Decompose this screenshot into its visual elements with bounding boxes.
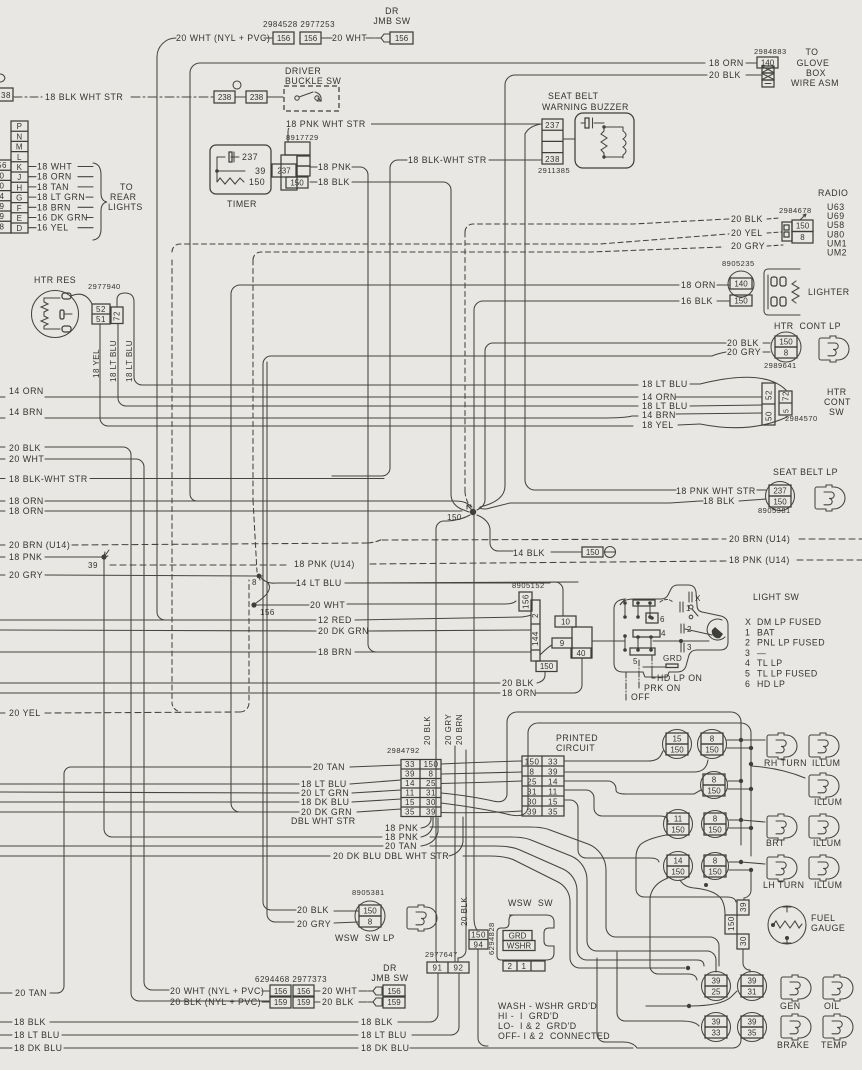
connector 91/92 (427, 962, 469, 973)
svg-text:18 BRN: 18 BRN (37, 202, 71, 212)
svg-text:14: 14 (548, 778, 558, 787)
svg-text:LIGHTER: LIGHTER (808, 287, 850, 297)
wire 18 PNK left row to node 39 (0, 556, 5, 558)
connector 150 rotated box (725, 915, 737, 934)
connector 14/150 circle (664, 852, 693, 881)
svg-text:35: 35 (548, 808, 558, 817)
wire 18 PNK from module (310, 166, 317, 168)
connector DR JMB SW 156 bottom (368, 987, 382, 995)
lamp GEN bulb (781, 975, 811, 1001)
svg-text:150: 150 (670, 745, 684, 754)
connector 8/150 circle 1 (698, 730, 727, 759)
svg-text:10: 10 (561, 617, 570, 626)
svg-text:150: 150 (471, 931, 486, 940)
svg-text:9: 9 (0, 212, 5, 221)
svg-text:30: 30 (739, 936, 748, 946)
node: x157 vertical lower end merges into 12 RED line (157, 585, 165, 620)
wire dashed 20 BLK radio (465, 219, 729, 232)
connector 159 bottom 2 (293, 996, 314, 1008)
connector 150/94 wsw (469, 930, 488, 949)
lamp RH TURN bulb (767, 733, 797, 759)
connector 2/1 box wsw (503, 961, 545, 971)
svg-text:WASH - WSHR GRD'D: WASH - WSHR GRD'D (498, 1001, 597, 1011)
svg-text:25: 25 (712, 987, 721, 996)
svg-text:20 YEL: 20 YEL (731, 228, 763, 238)
svg-text:FUEL: FUEL (811, 913, 836, 923)
connector 9 box (552, 638, 572, 648)
timer pin 39 (217, 157, 245, 171)
svg-text:18 ORN: 18 ORN (681, 280, 716, 290)
wire dashed vertical 20 GRY radio to node 8 (252, 260, 254, 500)
wire node150 to 14 BLK terminator (477, 515, 513, 551)
light switch pin X (689, 592, 692, 602)
svg-text:20 BLK: 20 BLK (9, 443, 41, 453)
svg-text:4: 4 (661, 629, 666, 638)
connector WSHR box wsw (503, 941, 535, 951)
lamp seat belt lp bulb (815, 485, 845, 511)
svg-text:30: 30 (527, 798, 537, 807)
lamp ILLUM bulb 4 (809, 855, 839, 881)
connector 52/51 htr res (92, 304, 110, 324)
svg-text:8: 8 (429, 770, 434, 779)
svg-text:150: 150 (708, 825, 722, 834)
svg-text:M: M (16, 143, 23, 152)
wires block to rear lights labels (28, 166, 36, 168)
wire node39 vertical 18 PNK down to bottom row (104, 559, 130, 837)
svg-text:2977647: 2977647 (425, 950, 458, 959)
connector 39/33 circle (702, 1013, 731, 1042)
svg-text:2984570: 2984570 (785, 414, 818, 423)
svg-text:72: 72 (113, 311, 122, 321)
svg-text:18 DK BLU: 18 DK BLU (361, 1043, 410, 1053)
svg-text:20 GRY: 20 GRY (731, 241, 765, 251)
svg-text:18 TAN: 18 TAN (37, 182, 69, 192)
lamp ILLUM bulb 2 (809, 773, 839, 799)
wire/vertical 20 WHT from top label down left side (157, 38, 176, 585)
component seat belt warning module 8917729 (285, 142, 310, 155)
component HTR RES circle (32, 291, 79, 338)
svg-text:HTR CONT LP: HTR CONT LP (774, 321, 841, 331)
svg-text:25: 25 (426, 779, 436, 788)
light switch pin 1 (680, 602, 683, 612)
wire 20 GRY htr cont lp from vertical x263 (263, 352, 726, 910)
svg-text:14 LT BLU: 14 LT BLU (296, 578, 342, 588)
svg-text:33: 33 (712, 1028, 721, 1037)
svg-text:237: 237 (545, 121, 560, 130)
svg-text:31: 31 (748, 987, 757, 996)
wire 18 ORN lighter from vertical x230 (231, 285, 679, 812)
svg-text:156: 156 (387, 987, 401, 996)
svg-text:11: 11 (405, 789, 414, 798)
connector DR JMB SW 159 bottom (368, 998, 382, 1006)
label 18 PNK WHT STR (285, 119, 371, 128)
node 156 splice (256, 583, 270, 603)
svg-text:8905381: 8905381 (758, 506, 791, 515)
svg-text:150: 150 (249, 177, 265, 187)
svg-text:6: 6 (660, 615, 665, 624)
lamp BRAKE bulb (781, 1014, 811, 1040)
svg-text:18 ORN: 18 ORN (9, 506, 44, 516)
svg-text:52: 52 (96, 305, 106, 314)
wire 18 PNK WHT STR to buzzer 237 and seat belt lp branch (288, 124, 541, 142)
svg-text:UM2: UM2 (827, 248, 847, 258)
svg-text:SEAT BELT: SEAT BELT (548, 91, 599, 101)
svg-text:16 YEL: 16 YEL (37, 223, 69, 233)
wire sweep to 39/33 (617, 952, 699, 1026)
svg-text:56: 56 (0, 161, 7, 170)
svg-text:BOX: BOX (806, 68, 826, 78)
svg-text:4: 4 (0, 192, 5, 201)
svg-text:TEMP: TEMP (821, 1040, 847, 1050)
svg-text:8: 8 (368, 917, 373, 926)
svg-text:237: 237 (277, 166, 291, 175)
wire long border line from corner x190 to glove box 18 ORN (190, 63, 705, 501)
connector 150 lighter (730, 295, 752, 306)
svg-text:18 ORN: 18 ORN (37, 172, 72, 182)
wire 20 TAN row upper (70, 766, 311, 768)
svg-text:20 DK BLU DBL WHT STR: 20 DK BLU DBL WHT STR (333, 851, 449, 861)
svg-text:H: H (16, 183, 22, 192)
connector 156 bottom 1 (270, 985, 291, 997)
svg-text:20 BRN (U14): 20 BRN (U14) (9, 540, 70, 550)
connector 237 module (272, 164, 296, 177)
svg-text:P: P (17, 122, 23, 131)
connector 238 #1 (214, 91, 235, 103)
svg-text:HI - I GRD'D: HI - I GRD'D (498, 1011, 559, 1021)
svg-text:150: 150 (734, 296, 748, 305)
svg-text:20 WHT: 20 WHT (332, 33, 367, 43)
wire 20 BLK row from left into 150 box (0, 682, 500, 684)
wire 20 LT GRN row (0, 792, 299, 793)
svg-text:31: 31 (527, 788, 537, 797)
wire dashed vertical 20 YEL radio left (171, 260, 173, 702)
svg-text:20 BRN (U14): 20 BRN (U14) (729, 534, 790, 544)
svg-text:2: 2 (531, 613, 540, 618)
wire 18 YEL htr sw (100, 324, 633, 426)
svg-text:237: 237 (242, 152, 258, 162)
svg-text:K: K (17, 163, 23, 172)
connector 237/150 seat belt lp (766, 482, 795, 511)
svg-text:RH TURN: RH TURN (764, 758, 807, 768)
svg-text:WARNING BUZZER: WARNING BUZZER (542, 102, 629, 112)
node 8 splice (257, 574, 262, 579)
svg-text:18 LT BLU: 18 LT BLU (109, 340, 118, 382)
svg-text:150: 150 (586, 548, 600, 557)
svg-text:150: 150 (779, 337, 793, 346)
svg-text:20 BLK: 20 BLK (297, 905, 329, 915)
svg-text:5: 5 (784, 409, 791, 413)
wire 14 LT BLU into 8905152 connector 10 (345, 582, 550, 584)
wire light switch to 9/40 outer box (592, 640, 625, 642)
svg-text:18 BLK-WHT STR: 18 BLK-WHT STR (9, 474, 88, 484)
svg-text:HD LP ON: HD LP ON (657, 673, 702, 683)
svg-text:CIRCUIT: CIRCUIT (556, 743, 595, 753)
svg-text:RADIO: RADIO (818, 188, 848, 198)
connector 150 terminator 14 BLK (582, 547, 603, 557)
connector 11/150 circle (664, 810, 693, 839)
svg-text:39: 39 (748, 976, 757, 985)
connector 38 left edge (0, 74, 5, 82)
wire 11/150 circle to 39 box chain (636, 835, 736, 902)
svg-text:TL LP: TL LP (757, 658, 783, 668)
svg-text:2984883: 2984883 (754, 47, 787, 56)
svg-text:SW: SW (829, 407, 844, 417)
svg-text:156: 156 (395, 34, 409, 43)
svg-text:LO- I & 2 GRD'D: LO- I & 2 GRD'D (498, 1021, 577, 1031)
wire 18 LT BLU row (0, 783, 299, 785)
svg-text:LIGHT SW: LIGHT SW (753, 592, 800, 602)
svg-text:39: 39 (712, 1017, 721, 1026)
svg-text:20 GRY: 20 GRY (297, 919, 331, 929)
wire 18 PNK row 2 from node39 sweep right (130, 836, 376, 838)
svg-text:20 WHT: 20 WHT (322, 986, 357, 996)
svg-text:18 LT GRN: 18 LT GRN (37, 192, 85, 202)
connector 8/150 circle 2 (701, 772, 728, 799)
lamp ILLUM bulb 1 (809, 733, 839, 759)
svg-text:8905235: 8905235 (722, 259, 755, 268)
svg-text:144: 144 (531, 631, 540, 646)
svg-text:18 LT BLU: 18 LT BLU (14, 1030, 60, 1040)
bus stubs and junction dots right column (727, 739, 741, 741)
component wsw switch body (497, 915, 554, 960)
component LIGHTER socket (764, 269, 800, 315)
lamp HTR CONT LP bulb (819, 336, 849, 362)
svg-text:20 TAN: 20 TAN (15, 988, 47, 998)
svg-text:BRAKE: BRAKE (777, 1040, 809, 1050)
label PRK ON (638, 682, 640, 686)
svg-text:11: 11 (548, 788, 557, 797)
svg-text:14: 14 (674, 856, 683, 865)
svg-text:20 BLK (NYL + PVC): 20 BLK (NYL + PVC) (170, 997, 261, 1007)
connector 39/31 circle (738, 972, 767, 1001)
connector strip 2/144 8905152 (531, 600, 540, 661)
svg-text:18 LT BLU: 18 LT BLU (125, 340, 134, 382)
svg-text:31: 31 (426, 789, 436, 798)
timer capacitor 237 (217, 156, 239, 158)
svg-text:2: 2 (508, 962, 513, 971)
svg-text:94: 94 (474, 941, 484, 950)
connector 30 rotated box (737, 934, 749, 949)
connector block left edge letters column (11, 121, 28, 233)
svg-text:DRIVER: DRIVER (285, 66, 321, 76)
wire 18 LT BLU #2 htr sw (118, 324, 638, 406)
connector 8/150 circle 4 (702, 853, 729, 880)
svg-text:18 PNK (U14): 18 PNK (U14) (729, 555, 790, 565)
connector 39/35 circle (738, 1013, 767, 1042)
svg-text:20 BLK: 20 BLK (460, 897, 469, 926)
svg-text:2989641: 2989641 (764, 361, 797, 370)
svg-text:150: 150 (707, 786, 721, 795)
svg-text:150: 150 (705, 745, 719, 754)
svg-text:5: 5 (745, 669, 750, 679)
svg-text:51: 51 (96, 315, 106, 324)
connector 39 rotated box (737, 900, 749, 915)
svg-text:14 BLK: 14 BLK (513, 548, 545, 558)
svg-text:20 BLK: 20 BLK (322, 997, 354, 1007)
svg-text:G: G (16, 194, 23, 203)
svg-text:18 PNK WHT STR: 18 PNK WHT STR (286, 119, 366, 129)
svg-text:18 PNK (U14): 18 PNK (U14) (294, 559, 355, 569)
wire 18 DK BLU row (0, 801, 299, 803)
sweep wire 18 PNK2 to bottom (430, 837, 716, 972)
svg-text:BRT: BRT (766, 838, 785, 848)
node 39 splice (101, 554, 106, 559)
svg-text:18 BLK WHT STR: 18 BLK WHT STR (45, 92, 123, 102)
svg-text:150: 150 (540, 662, 554, 671)
svg-text:8: 8 (0, 222, 5, 231)
svg-text:8: 8 (713, 814, 718, 823)
svg-text:18 WHT: 18 WHT (37, 162, 72, 172)
wire from 10 box up-left to 14 LT BLU (550, 582, 563, 616)
wire node150 sweep down-left to 20 BLK vertical x428 (436, 515, 470, 746)
lamp OIL bulb (823, 975, 853, 1001)
svg-text:16 BLK: 16 BLK (681, 296, 713, 306)
connector 140 glove box (757, 57, 778, 68)
connector 156 inline #2 top row (300, 32, 321, 44)
svg-text:1: 1 (745, 627, 750, 637)
connector 50/52 htr cont sw strip (762, 383, 775, 425)
connector 72 htr res (111, 307, 123, 324)
connector glove box 3-cell stack (762, 66, 774, 73)
svg-text:HD LP: HD LP (757, 679, 785, 689)
timer resistor 150 (217, 171, 244, 184)
svg-text:39: 39 (739, 902, 748, 912)
svg-text:LH TURN: LH TURN (763, 880, 804, 890)
connector 10 box (555, 616, 576, 627)
svg-text:GLOVE: GLOVE (797, 58, 830, 68)
svg-text:33: 33 (548, 758, 558, 767)
wire 91 down to 18 BLK row (402, 973, 438, 1022)
wire dashed 20 BRN U14 row (0, 544, 5, 546)
svg-text:39: 39 (527, 808, 537, 817)
switch DRIVER BUCKLE SW dashed box (284, 86, 339, 111)
connector 8/150 circle 3 (702, 811, 729, 838)
svg-text:39: 39 (712, 976, 721, 985)
svg-text:L: L (17, 153, 22, 162)
svg-text:150: 150 (363, 906, 377, 915)
svg-text:2: 2 (745, 638, 750, 648)
svg-text:150: 150 (525, 758, 540, 767)
wire 14 LT BLU row from node 8 (262, 579, 296, 583)
svg-text:8: 8 (530, 768, 535, 777)
svg-text:ILLUM: ILLUM (814, 880, 842, 890)
svg-text:156: 156 (522, 594, 531, 609)
svg-text:156: 156 (277, 34, 291, 43)
wire dashed 20 YEL radio (172, 234, 729, 252)
svg-text:CONT: CONT (824, 397, 851, 407)
svg-text:38: 38 (1, 91, 11, 100)
wire 30 box down to 39/31 circle (743, 949, 750, 972)
svg-text:DBL WHT STR: DBL WHT STR (291, 816, 356, 826)
svg-text:20 GRY: 20 GRY (9, 570, 43, 580)
wire dashed 18 BLK WHT STR to driver buckle sw (14, 96, 42, 98)
svg-text:20 WHT (NYL + PVC): 20 WHT (NYL + PVC) (176, 33, 270, 43)
svg-text:N: N (16, 132, 22, 141)
svg-text:DR: DR (383, 963, 397, 973)
lamp LH TURN bulb (767, 855, 797, 881)
lamp BRT bulb (767, 814, 797, 840)
svg-text:LIGHTS: LIGHTS (108, 202, 143, 212)
connector 156 rotated box 8905152 (519, 592, 532, 611)
svg-text:TIMER: TIMER (227, 199, 257, 209)
outer box around 9/40 (572, 627, 592, 658)
svg-text:20 WHT: 20 WHT (9, 454, 44, 464)
svg-text:3: 3 (745, 648, 750, 658)
svg-text:9: 9 (560, 639, 565, 648)
svg-text:18 ORN: 18 ORN (9, 496, 44, 506)
wire row 18 LT BLU bottom (0, 1034, 12, 1036)
svg-text:150: 150 (708, 867, 722, 876)
sweep wire 20 TAN2 to bottom (430, 846, 704, 966)
svg-text:15: 15 (673, 734, 682, 743)
svg-text:39: 39 (548, 768, 558, 777)
svg-text:39: 39 (426, 808, 436, 817)
svg-text:18 DK BLU: 18 DK BLU (301, 797, 350, 807)
svg-text:20 WHT (NYL + PVC): 20 WHT (NYL + PVC) (170, 986, 264, 996)
connector 159 bottom 1 (270, 996, 291, 1008)
wire 20 BLK htr cont lp from node150 via x485 (477, 343, 726, 510)
wire 18 BRN row (0, 651, 316, 653)
wire curve strip to 9 box (540, 645, 552, 655)
svg-text:OFF- I & 2 CONNECTED: OFF- I & 2 CONNECTED (498, 1031, 610, 1041)
svg-text:WSHR: WSHR (507, 941, 532, 950)
svg-text:238: 238 (218, 93, 232, 102)
svg-text:156: 156 (304, 34, 318, 43)
lamp TEMP bulb (823, 1014, 853, 1040)
connector 150 box 8905152 (536, 661, 557, 672)
svg-text:5: 5 (633, 657, 638, 666)
connector table printed circuit (522, 756, 564, 816)
htr res internals (41, 298, 48, 329)
wire PC bus A outer loop (441, 712, 741, 845)
svg-text:18 LT BLU: 18 LT BLU (642, 379, 688, 389)
wire 16 BLK lighter down to node 150 via x473 (474, 301, 679, 930)
wires PC table right side to circles (564, 751, 663, 761)
svg-text:39: 39 (748, 1017, 757, 1026)
buzzer internals (563, 138, 575, 140)
svg-text:150: 150 (671, 825, 685, 834)
svg-text:TO: TO (120, 182, 133, 192)
connector 140 lighter with ring (728, 271, 754, 297)
svg-text:18 PNK WHT STR: 18 PNK WHT STR (676, 486, 756, 496)
wire 14/150 down to bottom row (650, 878, 697, 980)
svg-text:2984528 2977253: 2984528 2977253 (263, 20, 335, 29)
svg-text:14: 14 (405, 779, 415, 788)
svg-text:6: 6 (745, 679, 750, 689)
svg-text:E: E (17, 214, 23, 223)
svg-text:18 PNK: 18 PNK (9, 552, 42, 562)
svg-text:TL LP FUSED: TL LP FUSED (757, 669, 818, 679)
svg-text:HTR: HTR (827, 387, 847, 397)
lamp WSW SW LP bulb (407, 905, 437, 931)
wire 20 WHT row from node 156 to 8905152 (257, 604, 309, 606)
label HD LP ON (652, 672, 655, 678)
lamp ILLUM bulb 3 (809, 814, 839, 840)
wire 18 ORN left row 1 merged with border vertical (0, 500, 5, 502)
svg-text:159: 159 (387, 998, 401, 1007)
svg-text:140: 140 (734, 279, 748, 288)
svg-text:1: 1 (522, 962, 527, 971)
svg-text:8: 8 (710, 734, 715, 743)
svg-text:238: 238 (545, 155, 560, 164)
svg-text:16 DK GRN: 16 DK GRN (37, 213, 88, 223)
svg-text:8: 8 (713, 856, 718, 865)
wire 20 WHT left row down to bottom NYL PVC row (0, 458, 5, 460)
svg-text:159: 159 (297, 998, 311, 1007)
wire 18 BLK-WHT STR left row (0, 478, 5, 480)
wire 18 BLK from module (310, 181, 317, 183)
connector 40 box (571, 648, 591, 658)
